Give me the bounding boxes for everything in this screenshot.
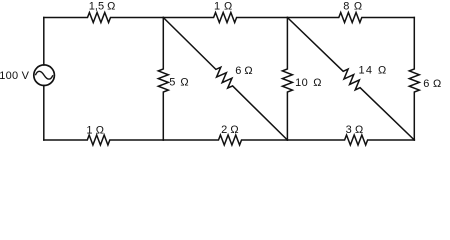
resistor R7 14 ohm (diagonal node C top to node E bottom) xyxy=(287,18,414,141)
svg-text:14 Ω: 14 Ω xyxy=(359,64,388,76)
svg-text:10 Ω: 10 Ω xyxy=(295,77,322,89)
svg-text:1 Ω: 1 Ω xyxy=(86,124,104,136)
wire left-bottom (source V1 - down to node D) xyxy=(43,86,45,141)
svg-text:3 Ω: 3 Ω xyxy=(346,124,364,136)
svg-text:1,5 Ω: 1,5 Ω xyxy=(89,0,116,12)
svg-text:100 V: 100 V xyxy=(0,70,30,82)
resistor R8 6 ohm (right vertical branch, node E) xyxy=(409,18,419,141)
resistor R2 1 ohm (top-middle, node B to node C) xyxy=(163,13,287,23)
resistor R1 1,5 ohm (top-left, node A to node B) xyxy=(44,13,164,23)
wire left-top (node A down to source V1 +) xyxy=(43,18,45,65)
svg-text:1 Ω: 1 Ω xyxy=(214,0,232,12)
resistor R6 10 ohm (vertical branch at node C) xyxy=(282,18,292,141)
resistor R10 2 ohm (bottom-middle) xyxy=(163,135,287,145)
svg-text:6 Ω: 6 Ω xyxy=(423,78,441,90)
svg-text:5 Ω: 5 Ω xyxy=(169,77,188,89)
resistor R4 5 ohm (vertical branch at node B) xyxy=(158,18,168,141)
svg-text:8 Ω: 8 Ω xyxy=(343,0,362,12)
svg-text:2 Ω: 2 Ω xyxy=(221,124,238,136)
svg-text:6 Ω: 6 Ω xyxy=(235,65,252,77)
resistor R5 6 ohm (diagonal node B top to node C bottom) xyxy=(163,18,287,141)
AC source V1 (100 V sine source) xyxy=(34,65,55,86)
resistor R11 3 ohm (bottom-right) xyxy=(287,135,414,145)
resistor R9 1 ohm (bottom-left, node D to node B bottom) xyxy=(44,135,164,145)
resistor R3 8 ohm (top-right, node C to node E) xyxy=(287,13,414,23)
